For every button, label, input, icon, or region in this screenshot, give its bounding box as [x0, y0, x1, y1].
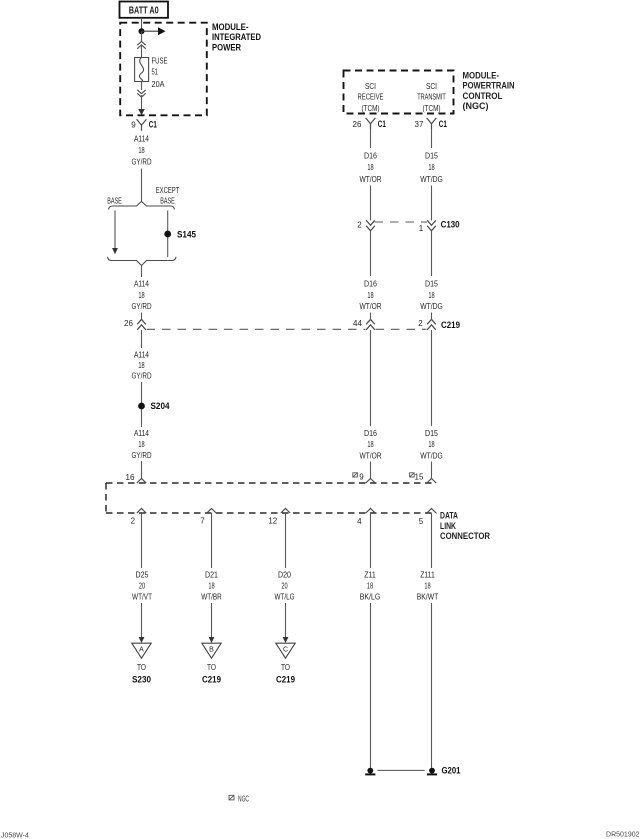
wire [141, 330, 143, 348]
wire [370, 462, 372, 480]
svg-text:2: 2 [357, 221, 362, 230]
wire label D16 18 WT/OR [360, 428, 382, 460]
svg-text:WT/OR: WT/OR [360, 450, 382, 460]
svg-text:20: 20 [139, 581, 145, 591]
svg-text:BASE: BASE [107, 196, 122, 206]
wire [431, 186, 433, 221]
svg-text:1: 1 [419, 224, 424, 233]
fuse terminal chevrons (up) [137, 41, 145, 48]
svg-text:D15: D15 [425, 279, 438, 289]
svg-text:C1: C1 [439, 119, 447, 130]
svg-text:FUSE: FUSE [152, 56, 168, 66]
wire [370, 231, 372, 276]
svg-text:TO: TO [207, 662, 216, 672]
wire [431, 130, 433, 148]
svg-text:BK/WT: BK/WT [417, 592, 439, 602]
svg-text:18: 18 [428, 439, 434, 449]
svg-text:5: 5 [419, 517, 424, 526]
svg-text:GY/RD: GY/RD [132, 371, 152, 381]
option split brace [109, 202, 175, 210]
svg-text:18: 18 [138, 360, 144, 370]
svg-text:TO: TO [137, 662, 146, 672]
wire [141, 313, 143, 321]
option merge brace [108, 257, 176, 266]
svg-text:A114: A114 [134, 279, 149, 289]
NGC flag pin 9 [353, 473, 364, 482]
svg-text:C: C [283, 647, 288, 654]
connector C1 pin 37 [415, 118, 448, 130]
legend NGC flag [229, 795, 249, 804]
svg-text:C1: C1 [378, 119, 386, 130]
svg-text:GY/RD: GY/RD [132, 301, 152, 311]
svg-text:7: 7 [200, 517, 205, 526]
svg-text:A114: A114 [134, 349, 149, 359]
svg-text:GY/RD: GY/RD [132, 156, 152, 166]
DLC pin 12 fork and number [268, 509, 290, 526]
svg-text:(TCM): (TCM) [362, 103, 380, 113]
wire [370, 313, 372, 321]
svg-text:C1: C1 [149, 119, 157, 130]
label SCI TRANSMIT (TCM) [417, 81, 446, 113]
svg-text:18: 18 [367, 581, 373, 591]
fuse F51 [135, 58, 149, 82]
wire pin7 down [211, 513, 213, 568]
wire label A114 18 GY/RD [132, 279, 152, 312]
svg-text:WT/DG: WT/DG [420, 174, 443, 184]
wire pin4 down [370, 513, 372, 568]
svg-text:26: 26 [124, 319, 133, 328]
wire [431, 231, 433, 276]
svg-text:18: 18 [428, 162, 434, 172]
module-integrated power box (dashed) [120, 23, 207, 116]
wire [431, 313, 433, 321]
svg-text:WT/BR: WT/BR [201, 592, 222, 602]
wire [141, 409, 143, 427]
wire label D16 18 WT/OR [360, 279, 382, 312]
svg-text:S204: S204 [151, 401, 171, 412]
module-powertrain control box (dashed) [344, 71, 454, 114]
data link connector top edge [106, 482, 435, 484]
wire label D15 18 WT/DG [420, 279, 443, 312]
wire [141, 31, 143, 41]
pin 15 fork into DLC [427, 479, 436, 484]
svg-text:D15: D15 [425, 428, 438, 438]
svg-text:BASE: BASE [160, 196, 175, 206]
wire Z11 to ground [370, 603, 372, 768]
svg-text:18: 18 [138, 290, 144, 300]
svg-text:TO: TO [281, 662, 290, 672]
svg-text:C130: C130 [441, 220, 460, 231]
svg-text:18: 18 [208, 581, 214, 591]
wire pin2 down [141, 513, 143, 568]
wire [141, 46, 143, 58]
svg-text:D25: D25 [136, 570, 149, 580]
wire label Z111 18 BK/WT [417, 570, 439, 602]
svg-text:C219: C219 [202, 675, 221, 686]
wire [370, 130, 372, 148]
svg-text:RECEIVE: RECEIVE [358, 92, 384, 102]
wire pin5 down [431, 513, 433, 568]
DLC pin 4 fork and number [357, 509, 375, 527]
svg-text:15: 15 [415, 473, 424, 482]
connector C219 pin 26 [124, 319, 146, 330]
svg-text:18: 18 [367, 162, 373, 172]
wire [431, 330, 433, 426]
connector C219 pin 44 [353, 319, 375, 330]
svg-text:D16: D16 [364, 151, 377, 161]
svg-text:G201: G201 [442, 766, 462, 777]
svg-text:C219: C219 [276, 675, 295, 686]
svg-text:POWER: POWER [212, 42, 241, 53]
wire label A114 18 GY/RD [132, 349, 152, 380]
wire [141, 169, 143, 202]
svg-text:EXCEPT: EXCEPT [156, 185, 180, 195]
svg-text:WT/LG: WT/LG [275, 592, 295, 602]
wire label D15 18 WT/DG [420, 428, 443, 460]
data link connector bottom edge [106, 512, 437, 514]
ground symbol left [365, 768, 375, 776]
svg-text:18: 18 [138, 439, 144, 449]
svg-text:18: 18 [138, 145, 144, 155]
svg-text:18: 18 [367, 439, 373, 449]
connector C1 pin 9 [131, 119, 157, 131]
svg-text:CONNECTOR: CONNECTOR [440, 531, 490, 542]
svg-text:TRANSMIT: TRANSMIT [417, 92, 446, 102]
svg-text:51: 51 [152, 67, 159, 77]
wire [370, 186, 372, 221]
NGC flag pin 15 [410, 473, 424, 482]
svg-text:DR501902: DR501902 [606, 832, 640, 839]
fuse terminal chevrons (down) [137, 90, 145, 97]
arrow feed to other circuits [142, 27, 166, 35]
ground tie line [378, 769, 425, 771]
off-page triangle C [276, 643, 295, 685]
ground symbol right G201 [427, 766, 461, 777]
wire [141, 82, 143, 91]
svg-text:SCI: SCI [365, 81, 376, 91]
svg-text:16: 16 [126, 473, 135, 482]
connector C219 pin 2 [418, 319, 460, 331]
svg-text:WT/DG: WT/DG [420, 450, 443, 460]
svg-text:A: A [139, 647, 144, 654]
svg-text:J058W-4: J058W-4 [1, 833, 29, 839]
svg-text:BATT A0: BATT A0 [129, 6, 159, 17]
splice S204 [138, 401, 170, 412]
svg-text:9: 9 [131, 120, 136, 129]
label SCI RECEIVE (TCM) [358, 81, 384, 113]
svg-text:BK/LG: BK/LG [360, 592, 381, 602]
svg-text:Z11: Z11 [364, 570, 376, 580]
svg-text:B: B [209, 647, 214, 654]
svg-text:26: 26 [353, 120, 362, 129]
svg-text:18: 18 [428, 290, 434, 300]
svg-text:(NGC): (NGC) [463, 101, 489, 112]
wire [141, 266, 143, 278]
svg-text:GY/RD: GY/RD [132, 450, 152, 460]
svg-text:18: 18 [424, 581, 430, 591]
svg-text:18: 18 [367, 290, 373, 300]
wire Z111 to ground [431, 603, 433, 768]
svg-text:(TCM): (TCM) [423, 103, 441, 113]
connector C130 pin 2 [357, 220, 375, 231]
svg-text:WT/VT: WT/VT [132, 592, 152, 602]
svg-text:D21: D21 [205, 570, 218, 580]
splice S145 [164, 229, 196, 240]
wire to triangle A [139, 603, 145, 643]
junction dot [139, 28, 145, 34]
label MODULE-POWERTRAIN CONTROL (NGC) [463, 70, 515, 112]
svg-text:WT/OR: WT/OR [360, 301, 382, 311]
branch labels BASE / EXCEPT BASE [107, 185, 179, 205]
svg-text:S145: S145 [177, 229, 197, 240]
svg-text:20A: 20A [152, 79, 165, 89]
svg-text:NGC: NGC [238, 795, 249, 804]
DLC pin 2 fork and number [131, 509, 147, 526]
wire to triangle B [209, 603, 215, 643]
svg-text:D16: D16 [364, 428, 377, 438]
wire [141, 382, 143, 403]
svg-text:A114: A114 [134, 428, 149, 438]
svg-text:A114: A114 [134, 134, 149, 144]
svg-text:4: 4 [357, 517, 362, 526]
svg-text:WT/DG: WT/DG [420, 301, 443, 311]
wire label D16 18 WT/OR [360, 151, 382, 184]
connector C1 pin 26 [353, 118, 387, 130]
wire label A114 18 GY/RD [132, 134, 152, 167]
svg-text:12: 12 [268, 517, 277, 526]
svg-text:S230: S230 [132, 675, 151, 686]
wire label D21 18 WT/BR [201, 570, 222, 602]
wire pin12 down [285, 513, 287, 568]
wire label Z11 18 BK/LG [360, 570, 381, 602]
off-page triangle A [132, 643, 151, 685]
svg-text:C219: C219 [441, 320, 460, 331]
svg-text:37: 37 [415, 120, 424, 129]
C219 dashed line [147, 328, 427, 330]
svg-text:44: 44 [353, 319, 362, 328]
DLC pin 7 fork and number [200, 509, 216, 526]
data link connector left edge [105, 483, 107, 513]
wire [141, 461, 143, 479]
wire label D25 20 WT/VT [132, 570, 152, 602]
wire from BATT A0 into box [141, 18, 143, 31]
pin 16 fork into DLC [137, 479, 146, 484]
label MODULE-INTEGRATED POWER [212, 22, 261, 54]
wire exiting box with arrow [138, 95, 145, 115]
wire to triangle C [283, 603, 289, 643]
battery feed box BATT A0 [120, 2, 169, 18]
C130 dashed line [375, 221, 428, 223]
svg-text:SCI: SCI [426, 81, 437, 91]
label DATA LINK CONNECTOR [440, 511, 490, 542]
pin 9 fork into DLC [366, 479, 375, 484]
svg-text:Z111: Z111 [420, 570, 435, 580]
DLC pin 5 fork and number [419, 509, 436, 527]
wire label D20 20 WT/LG [275, 570, 295, 602]
wire label D15 18 WT/DG [420, 151, 443, 184]
label FUSE 51 20A [152, 56, 168, 89]
wire [370, 330, 372, 426]
svg-text:2: 2 [418, 319, 423, 328]
svg-text:2: 2 [131, 517, 136, 526]
wire [431, 462, 433, 480]
connector C130 pin 1 [419, 220, 460, 233]
svg-text:D20: D20 [278, 570, 291, 580]
off-page triangle B [202, 643, 221, 685]
svg-text:20: 20 [281, 581, 287, 591]
svg-text:WT/OR: WT/OR [360, 174, 382, 184]
svg-text:D15: D15 [425, 151, 438, 161]
wire EXCEPT BASE branch [167, 211, 169, 258]
wire label A114 18 GY/RD [132, 428, 152, 460]
svg-text:9: 9 [359, 473, 364, 482]
svg-text:D16: D16 [364, 279, 377, 289]
wire BASE branch with arrow [112, 211, 118, 255]
